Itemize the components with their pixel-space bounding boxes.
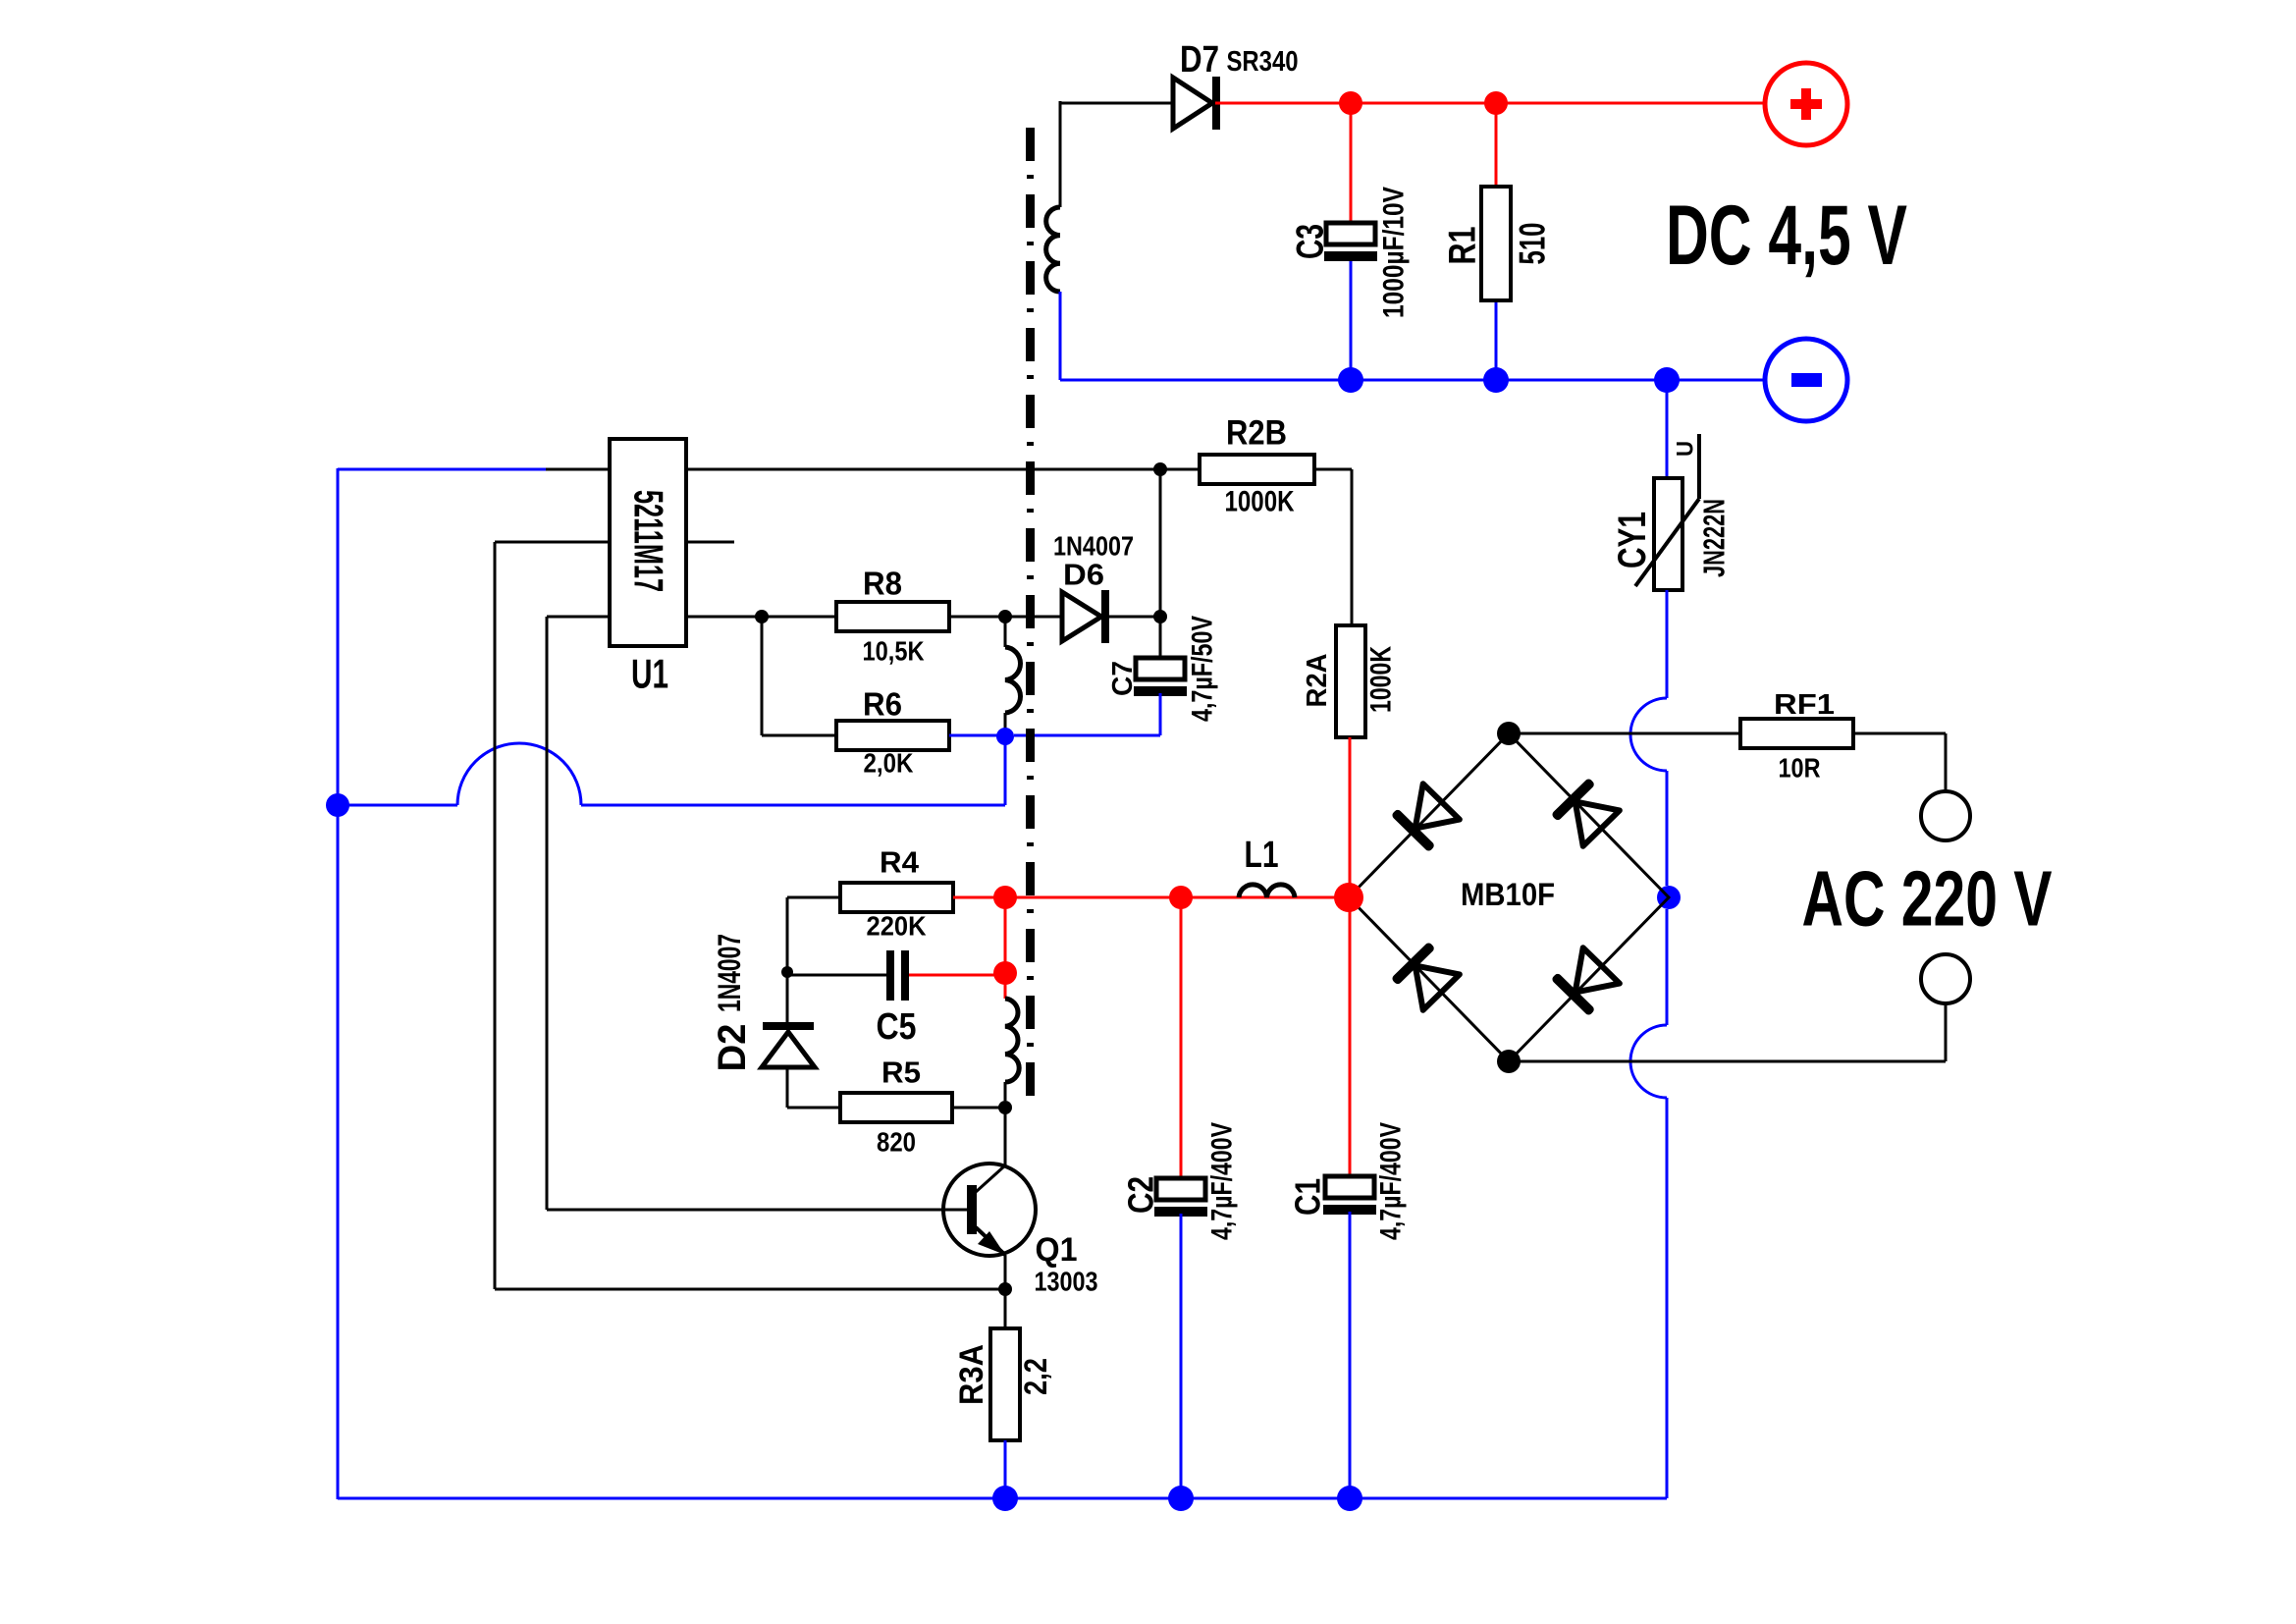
wire secondary top black (1060, 101, 1174, 207)
transformer core barrier dash line (1026, 128, 1035, 1096)
wire blue secondary bottom (1060, 292, 1768, 380)
capacitor C5 (877, 950, 917, 1048)
svg-text:D7: D7 (1180, 39, 1219, 81)
node blue rail CY1 branch (1654, 367, 1680, 393)
wire U1 pin to R8 node (686, 616, 762, 619)
resistor R1 510 (1442, 187, 1553, 380)
rectifier MB10F (1349, 733, 1669, 1061)
node blue left rail junction (326, 793, 349, 817)
wire blue R3A bottom (1004, 1440, 1007, 1498)
wire blue CY1 to bridge (1630, 590, 1667, 886)
diode D2 1N4007 (711, 934, 815, 1108)
svg-text:2,0K: 2,0K (864, 748, 914, 779)
node red main junction (993, 886, 1017, 909)
svg-text:C2: C2 (1121, 1176, 1161, 1214)
wire bridge top to RF1 (1509, 732, 1740, 735)
wire to R8 (762, 616, 836, 619)
svg-text:SR340: SR340 (1227, 46, 1299, 78)
node bridge top vertex (1497, 722, 1521, 745)
terminal - DC negative (1765, 339, 1847, 421)
node blue winding bottom (996, 728, 1014, 745)
svg-text:1000K: 1000K (1365, 646, 1398, 713)
wire U1 pin2 vertical to emitter (495, 542, 1005, 1289)
wire U1 pin stub (495, 541, 734, 544)
svg-text:D6: D6 (1063, 558, 1104, 592)
capacitor C7 4,7uF/50V (1014, 616, 1219, 735)
wire emitter (1004, 1255, 1007, 1289)
wire red R1 top (1495, 103, 1498, 187)
wire red mid horizontal (1005, 896, 1181, 899)
transformer primary winding (1005, 617, 1021, 731)
wire red C1 top (1349, 897, 1352, 1176)
svg-text:U1: U1 (631, 651, 668, 697)
wire red C5 right (909, 974, 1005, 977)
node D2 C5 junction (781, 966, 793, 978)
diode D7 SR340 (1173, 39, 1299, 130)
wire red L1 segment (1181, 896, 1349, 899)
inductor L1 (1239, 835, 1295, 897)
svg-text:CY1: CY1 (1611, 512, 1654, 568)
wire R5 right to coil node (952, 1107, 1005, 1110)
transistor Q1 13003 (943, 1164, 1098, 1297)
wire blue R6 to winding node (949, 734, 1005, 737)
svg-text:DC 4,5 V: DC 4,5 V (1666, 189, 1907, 283)
svg-text:510: 510 (1513, 223, 1553, 265)
node blue rail R1 (1483, 367, 1509, 393)
node red bridge left vertex (1334, 883, 1363, 912)
svg-text:4,7µF/400V: 4,7µF/400V (1206, 1122, 1239, 1240)
resistor R2A 1000K (1302, 625, 1398, 737)
terminal AC 2 (1921, 954, 1970, 1003)
svg-text:R6: R6 (863, 686, 902, 723)
svg-text:R2B: R2B (1226, 414, 1287, 453)
wire AC terminal 2 to bridge (1509, 1003, 1946, 1061)
wire red C3 top (1350, 103, 1353, 225)
svg-text:820: 820 (877, 1127, 916, 1158)
svg-text:R8: R8 (863, 566, 902, 602)
node red +rail junction R1 (1484, 91, 1508, 115)
node D6 R2B junction (1153, 610, 1167, 623)
svg-text:220K: 220K (867, 911, 927, 942)
resistor RF1 10R (1740, 689, 1853, 784)
node R2B junction top (1153, 462, 1167, 476)
svg-text:1000K: 1000K (1225, 486, 1295, 518)
svg-text:RF1: RF1 (1774, 689, 1835, 721)
svg-text:U: U (1673, 441, 1699, 457)
node bridge bottom vertex (1497, 1050, 1521, 1073)
wire R5 left (787, 1107, 840, 1110)
wire red aux top (1004, 897, 1007, 999)
wire R4 left (787, 897, 840, 972)
resistor R4 220K (840, 845, 953, 942)
resistor R6 2,0K (836, 686, 949, 779)
svg-text:5211M17: 5211M17 (626, 490, 672, 592)
wire R2B to R2A (1314, 469, 1352, 625)
svg-text:Q1: Q1 (1036, 1231, 1078, 1269)
svg-text:R5: R5 (881, 1056, 921, 1090)
svg-text:L1: L1 (1245, 835, 1279, 876)
capacitor C2 4,7uF/400V (1121, 1122, 1239, 1498)
wire D6 to node (1105, 616, 1160, 619)
wire node to D6 (1005, 616, 1062, 619)
svg-text:C3: C3 (1290, 224, 1332, 259)
transformer secondary winding (1046, 207, 1060, 292)
node blue bridge right vertex (1657, 886, 1681, 909)
node red C5 junction (993, 961, 1017, 985)
wire blue bridge right down (1630, 909, 1667, 1498)
wire red R2A to bridge (1349, 737, 1352, 897)
label DC 4,5 V (1666, 189, 1907, 283)
svg-text:C7: C7 (1107, 661, 1139, 696)
resistor R5 820 (840, 1056, 952, 1158)
wire blue CY1 top (1666, 380, 1669, 480)
wire C5 left (787, 974, 886, 977)
svg-text:C5: C5 (877, 1006, 917, 1048)
label AC 220 V (1802, 855, 2053, 943)
wire U1 pin3 left to base (547, 617, 967, 1210)
wire R6 branch (762, 617, 836, 735)
transformer aux winding (1005, 999, 1019, 1101)
svg-text:4,7µF/50V: 4,7µF/50V (1187, 616, 1219, 722)
wire R8 right to node (949, 616, 1005, 619)
node blue rail C3 (1338, 367, 1363, 393)
svg-text:2,2: 2,2 (1018, 1358, 1053, 1395)
wire emitter to R3A (1004, 1289, 1007, 1328)
node red C2 junction (1169, 886, 1193, 909)
node blue rail R3A (992, 1486, 1018, 1511)
svg-text:10,5K: 10,5K (863, 636, 925, 667)
svg-text:4,7µF/400V: 4,7µF/400V (1375, 1122, 1408, 1240)
terminal AC 1 (1921, 791, 1970, 840)
wire blue bottom rail (338, 1497, 1667, 1500)
svg-text:R4: R4 (880, 845, 920, 880)
wire red output rail (1215, 102, 1768, 105)
wire blue left rail (338, 468, 546, 1499)
svg-text:JN222N: JN222N (1697, 499, 1732, 577)
svg-text:13003: 13003 (1035, 1267, 1098, 1297)
node emitter junction (998, 1282, 1012, 1296)
node U1 R8 R6 junction (755, 610, 769, 623)
capacitor C1 4,7uF/400V (1288, 1122, 1408, 1498)
wire red C2 top (1180, 897, 1183, 1178)
wire R2B vertical (1159, 469, 1162, 617)
svg-text:1N4007: 1N4007 (712, 934, 747, 1012)
svg-text:R1: R1 (1442, 227, 1484, 265)
capacitor C3 1000uF/10V (1290, 187, 1411, 380)
svg-text:R3A: R3A (953, 1344, 990, 1405)
resistor R8 10,5K (836, 566, 949, 667)
svg-text:R2A: R2A (1302, 653, 1333, 707)
resistor R3A 2,2 (953, 1328, 1053, 1440)
svg-text:10R: 10R (1779, 753, 1821, 784)
diode D6 1N4007 (1053, 531, 1134, 644)
node blue rail C2 (1168, 1486, 1194, 1511)
terminal + DC positive (1765, 63, 1847, 145)
svg-text:C1: C1 (1288, 1178, 1328, 1216)
resistor R2B 1000K (1200, 414, 1314, 518)
node primary top junction (998, 610, 1012, 623)
svg-text:1000µF/10V: 1000µF/10V (1378, 187, 1411, 318)
wire blue mid horizontal with hop (338, 736, 1005, 805)
node red +rail junction C3 (1339, 91, 1362, 115)
svg-text:MB10F: MB10F (1461, 877, 1555, 912)
svg-text:D2: D2 (711, 1024, 754, 1072)
ic U1 5211M17 (610, 439, 686, 697)
svg-text:AC 220 V: AC 220 V (1802, 855, 2053, 943)
wire RF1 to AC terminal 1 (1853, 733, 1946, 791)
node aux winding emitter junction (998, 1101, 1012, 1114)
wire red R4 to node (953, 896, 1005, 899)
capacitor CY1 JN222N varistor (1611, 434, 1732, 590)
wire collector (976, 1108, 1005, 1192)
wire U1 top net (546, 468, 1200, 471)
node blue rail C1 (1337, 1486, 1362, 1511)
